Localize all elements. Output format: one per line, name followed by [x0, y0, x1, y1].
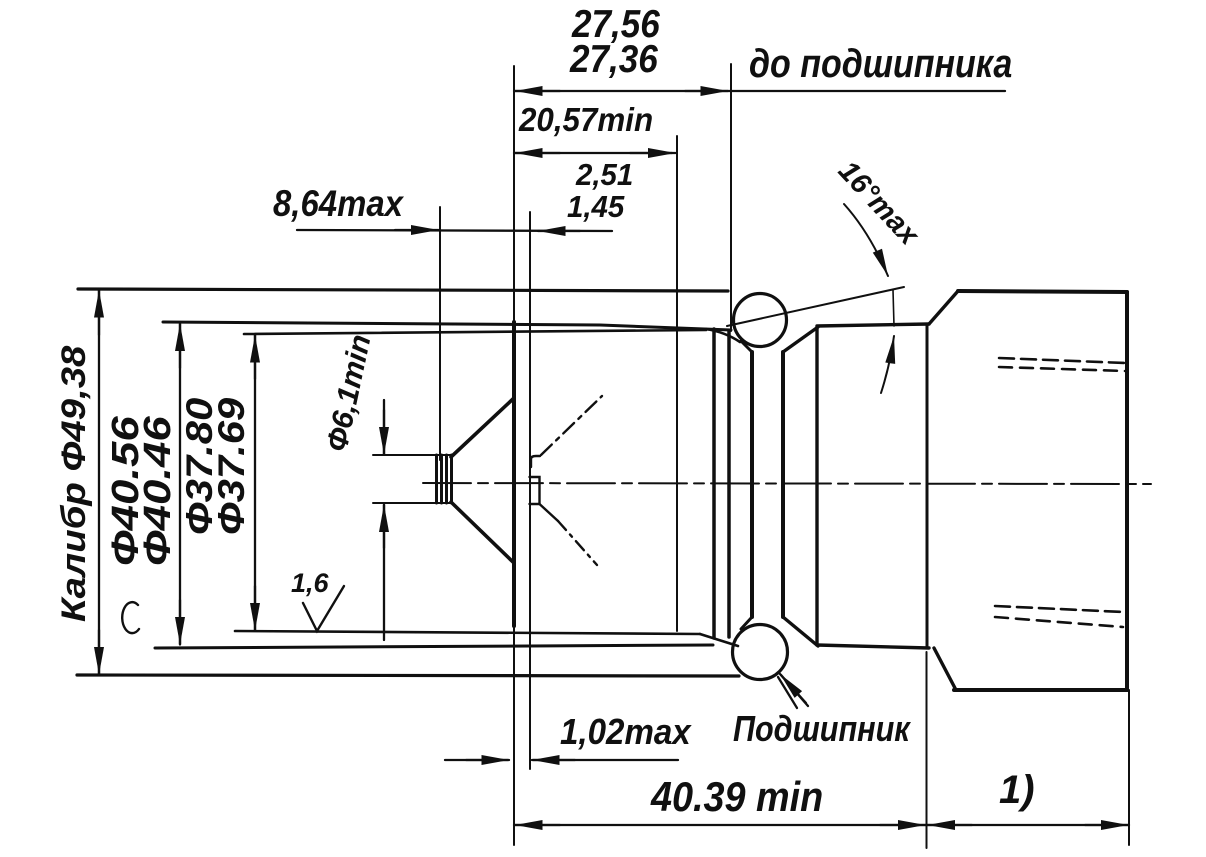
extension line x677	[676, 136, 678, 631]
shaft stub lower diagonal solid	[540, 504, 559, 521]
center hole pilot left edge	[437, 455, 442, 503]
svg-text:Подшипник: Подшипник	[733, 710, 912, 750]
mid cylinder top edge	[817, 324, 929, 326]
svg-text:Ф40.46: Ф40.46	[136, 416, 179, 566]
upper hidden dashed line 1	[999, 358, 1125, 363]
svg-text:1,45: 1,45	[567, 190, 625, 224]
svg-text:1,6: 1,6	[291, 568, 330, 598]
thread end face right	[727, 331, 731, 637]
top hook into bearing	[706, 329, 740, 342]
bearing race top right slant	[783, 327, 818, 352]
dimension 27,36 to bearing	[514, 90, 1005, 92]
extension line x731	[730, 64, 732, 331]
pilot top extension line	[373, 454, 451, 456]
big cylinder top edge	[958, 291, 1127, 292]
extension line x514 top	[513, 66, 515, 322]
svg-text:1): 1)	[999, 768, 1035, 812]
extension line x926	[926, 652, 928, 848]
gauge bore top line	[163, 322, 731, 330]
shaft stub lower rect	[530, 477, 540, 504]
pilot bottom extension line	[373, 502, 451, 504]
svg-text:Калибр Ф49,38: Калибр Ф49,38	[54, 345, 92, 622]
angle connector	[893, 290, 894, 326]
dimension Kalibr 49,38 vertical	[98, 290, 100, 675]
shoulder face vertical	[926, 324, 929, 648]
extension line x440	[439, 207, 441, 460]
roughness mark 1,6	[303, 586, 344, 631]
upper hidden dashed line 2	[999, 367, 1125, 371]
svg-text:27,36: 27,36	[569, 36, 658, 80]
shaft thread top line	[244, 330, 706, 334]
mid cylinder left edge	[815, 327, 818, 645]
bearing race left vertical	[750, 352, 754, 617]
bearing race top left slant	[741, 341, 752, 352]
gauge outer profile bottom line	[77, 675, 739, 676]
thread end face left	[712, 329, 716, 638]
bearing race right vertical	[781, 352, 785, 617]
gauge outer profile top line	[78, 289, 728, 291]
shaft thread bottom line	[235, 631, 700, 634]
lower hidden dashed line 2	[995, 617, 1123, 627]
cone lower side	[451, 502, 514, 563]
big cylinder right edge	[1125, 292, 1129, 690]
svg-text:20,57min: 20,57min	[518, 101, 653, 138]
16 degree slant line	[727, 287, 904, 326]
svg-text:Ф37.69: Ф37.69	[211, 398, 252, 535]
dimension right section	[926, 824, 1129, 826]
extension line x530	[529, 212, 531, 769]
top chamfer	[929, 291, 958, 324]
gauge face vertical	[512, 322, 516, 626]
svg-text:1,02max: 1,02max	[560, 713, 692, 753]
svg-text:8,64max: 8,64max	[273, 183, 404, 224]
center hole pilot right edge	[447, 455, 452, 503]
shaft stub upper hook	[531, 456, 540, 467]
bottom chamfer	[934, 648, 956, 690]
bearing ball top	[734, 294, 787, 347]
svg-text:40.39 min: 40.39 min	[650, 774, 823, 820]
extension line x1129	[1128, 690, 1130, 845]
center line	[423, 483, 1151, 484]
C mark	[122, 602, 139, 633]
bearing ball bottom	[733, 625, 788, 680]
dimension 40.56 vertical	[179, 324, 181, 645]
cone upper side	[451, 398, 514, 457]
mid cylinder bottom edge	[817, 645, 929, 648]
big cylinder bottom edge	[954, 688, 1127, 692]
svg-text:до подшипника: до подшипника	[749, 40, 1012, 85]
svg-text:2,51: 2,51	[575, 158, 633, 192]
angle 16 arc arrow	[844, 204, 888, 276]
dimension 20,57 min	[514, 152, 676, 154]
shaft stub upper phantom diagonal	[541, 396, 602, 455]
dimension 1,02 max	[445, 759, 678, 761]
dimension 8,64 max and 1,45	[297, 230, 612, 231]
dimension 6,1 min vertical	[383, 400, 385, 640]
dimension 37.80 vertical	[254, 335, 256, 631]
dimension 40.39 min	[514, 824, 926, 826]
bottom hook into bearing	[700, 634, 738, 646]
angle 16 lower arrow	[881, 336, 894, 393]
gauge bore bottom line	[155, 645, 713, 648]
extension line x514 bottom	[513, 626, 515, 845]
lower hidden dashed line 1	[995, 606, 1123, 612]
bearing race bottom right slant	[783, 617, 818, 646]
shaft stub lower phantom diagonal	[558, 521, 597, 565]
bearing leader arrow	[778, 674, 808, 708]
bearing race bottom left slant	[741, 617, 752, 629]
